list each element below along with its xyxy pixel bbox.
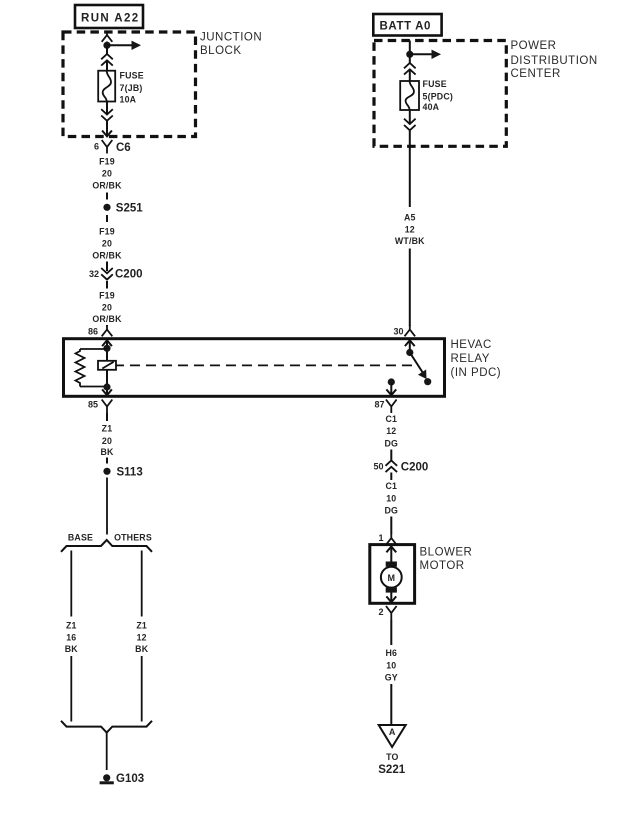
svg-text:F19: F19 <box>99 291 115 301</box>
svg-text:A: A <box>389 727 396 737</box>
svg-text:Z1: Z1 <box>102 424 113 434</box>
svg-text:S251: S251 <box>116 202 143 214</box>
svg-text:2: 2 <box>378 607 383 617</box>
svg-text:Z1: Z1 <box>136 621 147 631</box>
svg-text:20: 20 <box>102 303 112 313</box>
svg-text:87: 87 <box>374 400 384 410</box>
svg-text:POWER: POWER <box>511 40 557 52</box>
svg-text:RELAY: RELAY <box>451 353 490 365</box>
svg-text:10: 10 <box>386 660 396 670</box>
svg-text:5(PDC): 5(PDC) <box>423 92 454 102</box>
svg-text:10: 10 <box>386 494 396 504</box>
svg-text:10A: 10A <box>120 94 137 104</box>
svg-text:A5: A5 <box>404 213 416 223</box>
svg-text:(IN PDC): (IN PDC) <box>451 367 502 379</box>
svg-text:20: 20 <box>102 239 112 249</box>
svg-text:7(JB): 7(JB) <box>120 83 143 93</box>
svg-text:C200: C200 <box>115 269 143 281</box>
svg-text:S221: S221 <box>378 764 405 776</box>
svg-text:M: M <box>388 573 396 583</box>
svg-text:FUSE: FUSE <box>120 70 144 80</box>
svg-text:GY: GY <box>385 673 398 683</box>
svg-text:JUNCTION: JUNCTION <box>200 32 262 44</box>
svg-text:TO: TO <box>386 752 398 762</box>
svg-text:BATT A0: BATT A0 <box>380 21 431 33</box>
svg-text:30: 30 <box>393 327 403 337</box>
svg-text:DISTRIBUTION: DISTRIBUTION <box>511 55 598 67</box>
svg-text:85: 85 <box>88 400 98 410</box>
svg-text:OR/BK: OR/BK <box>92 181 122 191</box>
svg-text:C6: C6 <box>116 142 131 154</box>
svg-text:Z1: Z1 <box>66 621 77 631</box>
svg-text:6: 6 <box>94 142 99 152</box>
svg-text:BK: BK <box>135 644 149 654</box>
svg-text:12: 12 <box>405 224 415 234</box>
svg-text:FUSE: FUSE <box>423 79 447 89</box>
svg-text:12: 12 <box>386 426 396 436</box>
svg-text:H6: H6 <box>385 648 397 658</box>
svg-text:BLOWER: BLOWER <box>420 546 473 558</box>
svg-text:1: 1 <box>378 533 383 543</box>
svg-text:C1: C1 <box>385 414 397 424</box>
svg-text:S113: S113 <box>117 467 143 479</box>
svg-text:C1: C1 <box>385 481 397 491</box>
svg-text:32: 32 <box>89 269 99 279</box>
svg-text:20: 20 <box>102 436 112 446</box>
svg-text:DG: DG <box>384 506 398 516</box>
svg-text:HEVAC: HEVAC <box>451 339 492 351</box>
svg-text:BK: BK <box>100 447 114 457</box>
svg-text:F19: F19 <box>99 227 115 237</box>
svg-text:DG: DG <box>384 439 398 449</box>
svg-text:CENTER: CENTER <box>511 68 561 80</box>
svg-text:OR/BK: OR/BK <box>92 250 122 260</box>
svg-text:40A: 40A <box>423 102 440 112</box>
svg-text:50: 50 <box>373 461 383 471</box>
svg-text:16: 16 <box>66 633 76 643</box>
svg-text:C200: C200 <box>401 461 429 473</box>
svg-text:WT/BK: WT/BK <box>395 236 425 246</box>
svg-text:86: 86 <box>88 327 98 337</box>
svg-text:G103: G103 <box>116 773 144 785</box>
svg-text:OTHERS: OTHERS <box>114 533 152 543</box>
svg-text:BK: BK <box>65 644 79 654</box>
svg-text:MOTOR: MOTOR <box>420 560 465 572</box>
svg-text:20: 20 <box>102 169 112 179</box>
svg-text:BASE: BASE <box>68 533 93 543</box>
svg-text:OR/BK: OR/BK <box>92 314 122 324</box>
svg-text:12: 12 <box>137 633 147 643</box>
svg-text:BLOCK: BLOCK <box>200 45 242 57</box>
svg-text:RUN A22: RUN A22 <box>81 13 140 25</box>
svg-text:F19: F19 <box>99 157 115 167</box>
